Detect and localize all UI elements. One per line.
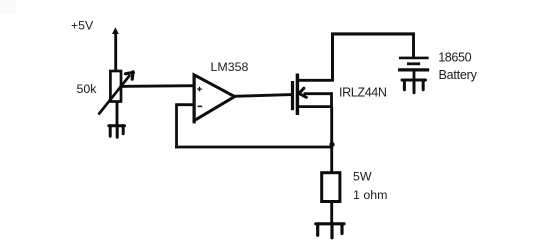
op-amp U1 LM358 [194, 74, 235, 123]
LM358 label [211, 60, 249, 74]
transistor Q1 IRLZ44N [293, 74, 333, 116]
50k value label [77, 82, 98, 96]
+5V label [71, 19, 94, 33]
wire: op-amp output to MOSFET gate [233, 95, 292, 97]
18650 Battery label [438, 51, 477, 82]
wire: pot bottom to ground [116, 102, 119, 126]
wire: feedback from - input to source node [175, 103, 333, 148]
wire: source down to resistor [330, 107, 333, 174]
potentiometer wiper arrow [99, 72, 134, 115]
op-amp - pin marker [198, 105, 203, 107]
1 ohm label [353, 188, 387, 202]
svg-text:1 ohm: 1 ohm [353, 188, 387, 202]
ground (battery) [402, 80, 426, 93]
svg-text:5W: 5W [353, 169, 372, 183]
svg-text:18650: 18650 [438, 51, 471, 65]
wire: resistor to ground [330, 202, 333, 224]
wire: wiper to op-amp + input [120, 84, 195, 88]
svg-text:LM358: LM358 [211, 60, 249, 74]
resistor R1 body [322, 173, 340, 202]
IRLZ44N label [339, 86, 387, 100]
wire: drain to battery (top rail) [331, 33, 415, 82]
svg-text:IRLZ44N: IRLZ44N [339, 86, 387, 100]
battery BT1 18650 [398, 58, 429, 80]
+5V supply arrow [112, 27, 119, 71]
potentiometer RV1 50k body [110, 71, 121, 102]
ground (resistor) [316, 224, 344, 238]
svg-text:+5V: +5V [71, 19, 94, 33]
node: source/feedback junction [329, 142, 334, 147]
svg-text:50k: 50k [77, 82, 98, 96]
op-amp + pin marker [197, 87, 202, 92]
ground (potentiometer) [109, 126, 125, 138]
svg-text:Battery: Battery [439, 68, 478, 82]
5W label [353, 169, 372, 183]
